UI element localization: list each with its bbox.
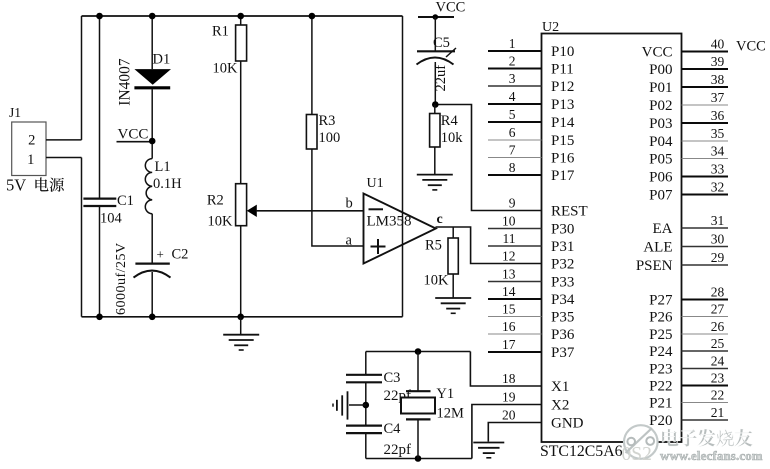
svg-text:C4: C4	[384, 421, 402, 437]
svg-text:R2: R2	[207, 193, 224, 209]
svg-text:28: 28	[711, 284, 725, 299]
svg-text:27: 27	[711, 301, 725, 316]
svg-text:6: 6	[509, 125, 516, 140]
svg-text:REST: REST	[551, 204, 588, 220]
svg-text:11: 11	[503, 231, 516, 246]
svg-text:c: c	[437, 212, 443, 227]
svg-text:www.elecfans.com: www.elecfans.com	[660, 449, 763, 463]
svg-text:R5: R5	[425, 238, 442, 254]
svg-text:P30: P30	[551, 222, 574, 238]
svg-text:VCC: VCC	[642, 45, 673, 61]
svg-text:25: 25	[711, 336, 725, 351]
svg-text:X1: X1	[551, 379, 569, 395]
svg-text:15: 15	[502, 301, 516, 316]
svg-text:P32: P32	[551, 257, 574, 273]
svg-text:P33: P33	[551, 275, 574, 291]
svg-text:PSEN: PSEN	[636, 258, 673, 274]
svg-text:6000uf/25V: 6000uf/25V	[114, 242, 129, 315]
svg-text:100: 100	[319, 130, 341, 146]
svg-text:17: 17	[502, 337, 516, 352]
svg-text:P26: P26	[649, 310, 673, 326]
svg-text:40: 40	[711, 36, 725, 51]
svg-text:39: 39	[711, 54, 725, 69]
svg-text:P16: P16	[551, 151, 575, 167]
svg-text:P00: P00	[649, 62, 672, 78]
svg-text:10: 10	[502, 213, 516, 228]
svg-text:D1: D1	[153, 52, 171, 68]
svg-text:10K: 10K	[424, 273, 450, 289]
svg-text:P31: P31	[551, 239, 574, 255]
svg-text:ALE: ALE	[643, 240, 672, 256]
svg-text:IN4007: IN4007	[117, 58, 134, 106]
svg-text:P05: P05	[649, 152, 672, 168]
svg-text:24: 24	[711, 353, 725, 368]
svg-text:J1: J1	[9, 105, 21, 120]
svg-text:36: 36	[711, 108, 725, 123]
svg-text:P02: P02	[649, 98, 672, 114]
svg-text:U1: U1	[367, 176, 384, 191]
svg-text:14: 14	[502, 284, 516, 299]
svg-text:P01: P01	[649, 80, 672, 96]
svg-text:104: 104	[100, 211, 123, 227]
svg-text:LM358: LM358	[367, 214, 412, 230]
svg-text:P35: P35	[551, 310, 574, 326]
svg-text:0S2: 0S2	[622, 444, 652, 465]
svg-text:+: +	[157, 247, 164, 262]
svg-text:1: 1	[27, 152, 34, 168]
svg-text:STC12C5A6: STC12C5A6	[540, 443, 623, 460]
svg-text:GND: GND	[551, 416, 584, 432]
svg-text:EA: EA	[653, 221, 673, 237]
svg-text:16: 16	[502, 319, 516, 334]
svg-text:P37: P37	[551, 345, 575, 361]
svg-text:R4: R4	[441, 113, 459, 129]
svg-text:Y1: Y1	[436, 386, 454, 402]
svg-text:b: b	[346, 196, 353, 212]
svg-text:37: 37	[711, 90, 725, 105]
svg-text:C3: C3	[384, 370, 401, 386]
svg-text:33: 33	[711, 161, 725, 176]
svg-text:38: 38	[711, 72, 725, 87]
svg-text:10K: 10K	[208, 214, 234, 230]
svg-text:5V: 5V	[6, 176, 26, 195]
svg-text:a: a	[346, 233, 353, 249]
svg-text:32: 32	[711, 179, 725, 194]
svg-text:0.1H: 0.1H	[153, 176, 182, 192]
svg-text:5: 5	[509, 107, 516, 122]
svg-text:35: 35	[711, 126, 725, 141]
svg-text:P10: P10	[551, 44, 574, 60]
svg-text:P12: P12	[551, 79, 574, 95]
svg-text:P36: P36	[551, 327, 575, 343]
svg-text:P15: P15	[551, 133, 574, 149]
svg-text:P20: P20	[649, 413, 672, 429]
svg-text:31: 31	[711, 213, 725, 228]
svg-text:22uf: 22uf	[433, 65, 449, 92]
svg-text:P07: P07	[649, 188, 673, 204]
svg-text:R3: R3	[319, 113, 336, 129]
svg-text:P04: P04	[649, 134, 673, 150]
svg-text:VCC: VCC	[736, 39, 766, 55]
svg-text:20: 20	[502, 407, 516, 422]
svg-text:21: 21	[711, 405, 725, 420]
svg-text:8: 8	[509, 160, 516, 175]
svg-text:P21: P21	[649, 396, 672, 412]
svg-text:P34: P34	[551, 292, 575, 308]
svg-text:7: 7	[509, 142, 516, 157]
svg-text:U2: U2	[542, 20, 559, 35]
svg-text:X2: X2	[551, 398, 569, 414]
svg-text:12: 12	[502, 248, 516, 263]
svg-text:3: 3	[509, 71, 516, 86]
svg-text:VCC: VCC	[436, 0, 466, 16]
svg-text:P14: P14	[551, 115, 575, 131]
svg-text:2: 2	[509, 53, 516, 68]
svg-text:13: 13	[502, 266, 516, 281]
svg-text:22pf: 22pf	[384, 442, 412, 458]
svg-text:P25: P25	[649, 327, 672, 343]
svg-text:P13: P13	[551, 97, 574, 113]
svg-text:C5: C5	[433, 35, 450, 51]
svg-text:26: 26	[711, 319, 725, 334]
svg-text:L1: L1	[155, 159, 171, 175]
svg-text:12M: 12M	[437, 406, 465, 422]
svg-text:C2: C2	[172, 247, 189, 263]
svg-text:P27: P27	[649, 293, 673, 309]
svg-text:P06: P06	[649, 170, 673, 186]
svg-text:C1: C1	[117, 193, 134, 209]
svg-text:P23: P23	[649, 362, 672, 378]
svg-text:19: 19	[502, 389, 516, 404]
svg-text:P17: P17	[551, 168, 575, 184]
svg-text:R1: R1	[212, 24, 229, 40]
svg-text:10K: 10K	[213, 60, 239, 76]
svg-text:23: 23	[711, 370, 725, 385]
svg-text:9: 9	[509, 195, 516, 210]
svg-text:18: 18	[502, 371, 516, 386]
svg-text:P11: P11	[551, 62, 574, 78]
svg-text:P22: P22	[649, 379, 672, 395]
svg-text:34: 34	[711, 143, 725, 158]
svg-text:P03: P03	[649, 116, 672, 132]
svg-text:10k: 10k	[441, 130, 464, 146]
svg-text:4: 4	[509, 89, 516, 104]
svg-text:29: 29	[711, 250, 725, 265]
svg-text:P24: P24	[649, 344, 673, 360]
svg-text:2: 2	[28, 133, 35, 149]
svg-text:30: 30	[711, 231, 725, 246]
svg-text:22: 22	[711, 387, 725, 402]
svg-text:VCC: VCC	[118, 127, 149, 143]
svg-text:1: 1	[509, 36, 516, 51]
